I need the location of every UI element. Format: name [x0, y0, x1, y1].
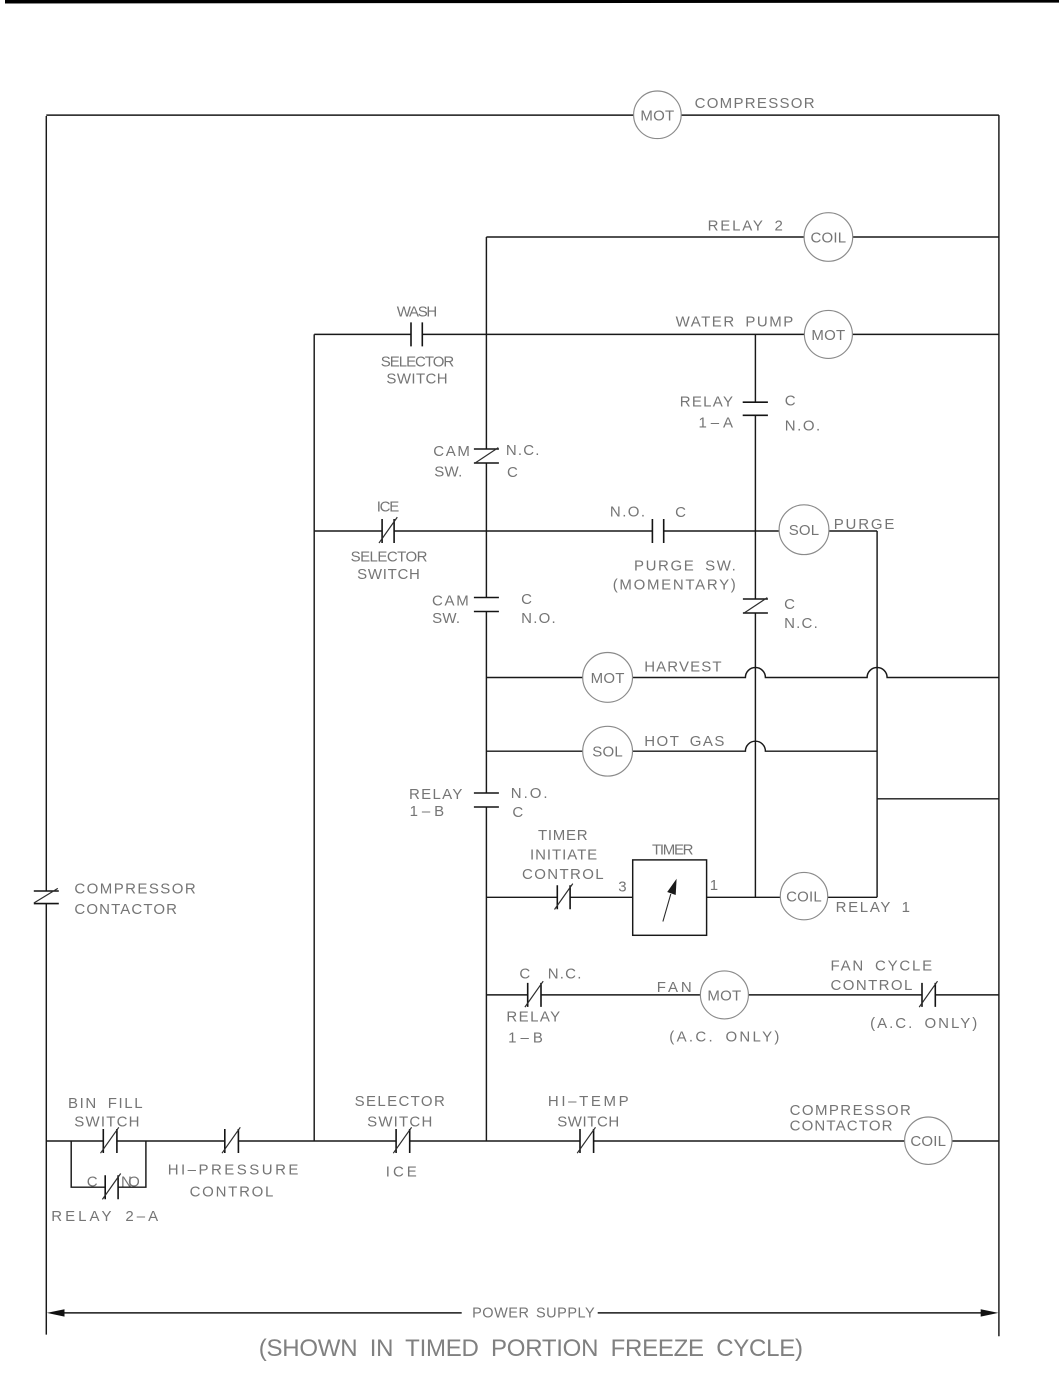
svg-text:PURGE SW.: PURGE SW.: [634, 557, 736, 574]
svg-text:SOL: SOL: [592, 744, 623, 761]
svg-text:TIMER: TIMER: [538, 827, 588, 844]
svg-text:CONTROL: CONTROL: [522, 866, 604, 883]
svg-text:1–A: 1–A: [699, 414, 734, 431]
arrowhead left: [47, 1309, 65, 1316]
svg-text:(MOMENTARY): (MOMENTARY): [613, 577, 736, 594]
svg-text:1–B: 1–B: [410, 803, 445, 820]
svg-text:SELECTOR: SELECTOR: [381, 354, 455, 371]
svg-text:WASH: WASH: [397, 304, 438, 321]
svg-text:HOT GAS: HOT GAS: [644, 733, 724, 750]
node branch vertical x=314: [313, 334, 315, 1141]
svg-text:C: C: [507, 464, 518, 481]
switch ice selector: [382, 519, 394, 543]
wire hot gas row with hop: [486, 741, 877, 751]
svg-text:BIN FILL: BIN FILL: [68, 1095, 143, 1112]
svg-text:RELAY: RELAY: [680, 394, 734, 411]
svg-text:SWITCH: SWITCH: [74, 1114, 139, 1131]
contact cam switch upper N.C.: [474, 449, 499, 463]
svg-text:SWITCH: SWITCH: [357, 566, 420, 583]
svg-text:COMPRESSOR: COMPRESSOR: [790, 1102, 911, 1119]
left power rail: [45, 116, 47, 1335]
svg-text:N.O.: N.O.: [610, 504, 645, 521]
svg-text:SWITCH: SWITCH: [557, 1114, 619, 1131]
coil compressor contactor: [905, 1117, 952, 1164]
svg-text:MOT: MOT: [811, 327, 845, 344]
switch hi-pressure control: [225, 1129, 239, 1153]
svg-text:CONTROL: CONTROL: [190, 1184, 274, 1201]
svg-text:(A.C. ONLY): (A.C. ONLY): [870, 1015, 977, 1032]
svg-text:C: C: [87, 1174, 98, 1191]
svg-text:CAM: CAM: [433, 443, 470, 460]
svg-text:N.C.: N.C.: [506, 442, 540, 459]
svg-text:HARVEST: HARVEST: [644, 659, 722, 676]
svg-text:N.O.: N.O.: [785, 417, 821, 434]
wire ice / purge row: [314, 530, 877, 532]
svg-text:SWITCH: SWITCH: [367, 1114, 432, 1131]
switch ice selector bottom: [396, 1129, 410, 1153]
svg-text:MOT: MOT: [591, 670, 625, 687]
wire power supply dimension line: [63, 1312, 982, 1314]
svg-text:N.O.: N.O.: [521, 610, 556, 627]
svg-text:RELAY: RELAY: [409, 786, 463, 803]
svg-text:C: C: [785, 393, 796, 410]
svg-text:C: C: [521, 591, 532, 608]
svg-text:N.C.: N.C.: [548, 966, 582, 983]
contact relay2 N.C. on branch: [743, 599, 768, 613]
svg-text:INITIATE: INITIATE: [530, 847, 597, 864]
svg-text:1–B: 1–B: [508, 1030, 543, 1047]
svg-text:COMPRESSOR: COMPRESSOR: [74, 881, 195, 898]
svg-text:(SHOWN IN TIMED PORTION FREEZE: (SHOWN IN TIMED PORTION FREEZE CYCLE): [259, 1335, 803, 1362]
svg-text:SOL: SOL: [789, 522, 820, 539]
wire relay 2-A parallel branch: [71, 1141, 146, 1187]
wire wash / water pump row: [314, 333, 999, 335]
wire harvest row with hops: [486, 668, 999, 678]
svg-text:C: C: [784, 596, 795, 613]
svg-text:COIL: COIL: [786, 889, 822, 906]
coil K2 relay 2: [804, 213, 853, 262]
node relay1A branch vertical x=755: [754, 334, 756, 897]
svg-text:CONTROL: CONTROL: [831, 977, 913, 994]
contact relay 1-B on central rail: [474, 793, 499, 807]
svg-text:SWITCH: SWITCH: [386, 371, 447, 388]
switch hi-temp: [580, 1129, 594, 1153]
wire timer / relay1 coil row: [486, 896, 877, 898]
svg-text:SELECTOR: SELECTOR: [355, 1093, 445, 1110]
svg-text:CONTACTOR: CONTACTOR: [74, 901, 177, 918]
motor M4 fan: [700, 971, 748, 1019]
svg-text:COIL: COIL: [910, 1133, 946, 1150]
svg-text:C: C: [519, 966, 530, 983]
svg-text:HI–PRESSURE: HI–PRESSURE: [168, 1162, 299, 1179]
wire top row compressor: [46, 114, 999, 116]
svg-text:COMPRESSOR: COMPRESSOR: [695, 95, 815, 112]
svg-text:SELECTOR: SELECTOR: [351, 549, 428, 566]
contact relay 1-A: [743, 402, 768, 415]
node purge-right vertical x=877: [876, 531, 878, 897]
svg-text:SW.: SW.: [432, 610, 460, 627]
wire bottom control row: [46, 1140, 999, 1142]
contact relay 1-B fan N.C.: [528, 983, 541, 1007]
timer dial arrow: [663, 894, 671, 922]
switch timer initiate control: [557, 885, 570, 909]
svg-text:1: 1: [710, 877, 719, 894]
motor M2 water pump: [804, 310, 852, 358]
svg-text:CAM: CAM: [432, 593, 469, 610]
svg-text:RELAY: RELAY: [506, 1009, 560, 1026]
svg-text:SW.: SW.: [434, 464, 462, 481]
switch purge momentary: [652, 519, 663, 543]
svg-text:POWER SUPPLY: POWER SUPPLY: [472, 1306, 595, 1322]
svg-text:COIL: COIL: [810, 230, 846, 247]
svg-text:TIMER: TIMER: [652, 842, 694, 859]
motor M3 harvest: [583, 653, 633, 703]
svg-text:FAN CYCLE: FAN CYCLE: [831, 958, 933, 975]
svg-text:CONTACTOR: CONTACTOR: [790, 1118, 893, 1135]
svg-text:RELAY 2–A: RELAY 2–A: [51, 1208, 158, 1225]
motor M1 compressor: [634, 91, 682, 139]
wire relay2 row: [486, 236, 999, 238]
wire crossover to right rail: [877, 798, 999, 800]
svg-text:ICE: ICE: [377, 499, 400, 516]
svg-text:MOT: MOT: [640, 107, 674, 124]
switch bin fill: [103, 1129, 117, 1153]
timer T1 box: [633, 860, 707, 935]
svg-text:N.C.: N.C.: [784, 615, 818, 632]
solenoid hot gas: [583, 726, 633, 776]
solenoid purge: [779, 505, 829, 555]
node central rail x=486: [485, 237, 487, 1141]
switch fan cycle control: [922, 983, 935, 1007]
wire fan row: [486, 994, 999, 996]
switch wash selector: [411, 322, 422, 346]
arrowhead right: [981, 1309, 999, 1316]
svg-text:MOT: MOT: [707, 987, 741, 1004]
svg-text:NO: NO: [121, 1174, 140, 1191]
coil K1 relay 1: [780, 872, 827, 919]
contact compressor contactor on left rail: [34, 891, 59, 904]
contact relay 2-A: [105, 1175, 118, 1199]
svg-text:C: C: [512, 804, 523, 821]
svg-text:PURGE: PURGE: [834, 516, 895, 533]
svg-text:3: 3: [618, 879, 627, 896]
right power rail: [998, 115, 1000, 1336]
svg-text:FAN: FAN: [657, 979, 692, 996]
contact cam switch lower N.O.: [474, 598, 499, 612]
svg-text:C: C: [675, 504, 686, 521]
